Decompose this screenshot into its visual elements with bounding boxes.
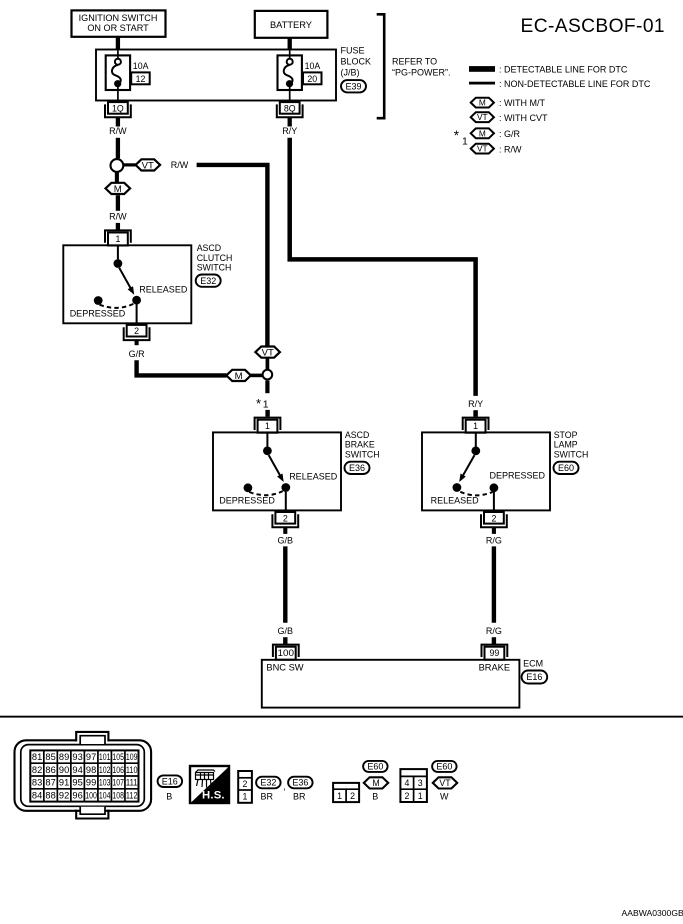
svg-text:R/Y: R/Y — [282, 126, 297, 136]
svg-text:VT: VT — [477, 112, 488, 122]
stop lamp switch common contact — [475, 433, 477, 447]
ignition switch box — [72, 10, 166, 36]
stop lamp switch movable contact arrow — [459, 455, 474, 482]
svg-text:E60: E60 — [558, 463, 574, 473]
svg-text:BRAKE: BRAKE — [345, 440, 375, 450]
wire junction to M hexagon — [115, 172, 119, 182]
svg-text:97: 97 — [86, 752, 96, 762]
wire G/R to M hexagon — [137, 360, 227, 375]
ASCD clutch switch box — [63, 245, 191, 323]
svg-text:106: 106 — [112, 765, 124, 775]
junction circle (brake switch feed) — [263, 370, 273, 380]
clutch switch output line — [136, 304, 138, 325]
connector E36 oval — [345, 462, 370, 474]
connector 2/1 (clutch+brake switch) — [238, 771, 252, 803]
svg-text:94: 94 — [72, 765, 82, 775]
svg-text:4: 4 — [405, 778, 410, 788]
svg-text:1Q: 1Q — [112, 103, 124, 113]
svg-text:93: 93 — [72, 752, 82, 762]
svg-text:M: M — [479, 98, 486, 108]
clutch switch common contact — [117, 246, 119, 260]
svg-text:M: M — [479, 128, 486, 138]
stop lamp switch box — [422, 432, 550, 510]
svg-text:E16: E16 — [526, 672, 542, 682]
svg-text:1: 1 — [263, 399, 269, 411]
legend hexagon VT — [471, 112, 494, 122]
svg-text:86: 86 — [45, 765, 55, 775]
svg-text:E32: E32 — [200, 276, 216, 286]
clutch switch depressed contact — [94, 296, 103, 305]
svg-text:R/Y: R/Y — [468, 399, 483, 409]
svg-text:83: 83 — [32, 778, 42, 788]
svg-text:DEPRESSED: DEPRESSED — [219, 496, 275, 506]
svg-text:G/B: G/B — [278, 535, 294, 545]
svg-text:E16: E16 — [162, 776, 178, 786]
svg-text:82: 82 — [32, 765, 42, 775]
svg-text:100: 100 — [278, 648, 295, 658]
svg-text:99: 99 — [490, 648, 500, 658]
connector E60 oval (M/T) — [363, 761, 388, 772]
svg-text:SWITCH: SWITCH — [197, 263, 232, 273]
svg-text:DEPRESSED: DEPRESSED — [70, 309, 126, 319]
svg-text:RELEASED: RELEASED — [289, 471, 338, 481]
wire junction to VT hexagon — [124, 163, 137, 166]
svg-text:: G/R: : G/R — [499, 129, 521, 139]
svg-text:: DETECTABLE LINE FOR DTC: : DETECTABLE LINE FOR DTC — [499, 64, 628, 74]
svg-text:FUSE: FUSE — [341, 46, 365, 56]
svg-text:91: 91 — [59, 778, 69, 788]
wire *1 upper segment — [265, 381, 269, 394]
svg-text:SWITCH: SWITCH — [345, 449, 380, 459]
stop lamp switch output line — [493, 492, 495, 513]
svg-text:: WITH CVT: : WITH CVT — [499, 113, 548, 123]
stop lamp switch pin 1 — [463, 418, 489, 433]
svg-text:BLOCK: BLOCK — [341, 57, 372, 67]
connector 1|2 (stop lamp switch M/T) — [333, 783, 359, 802]
svg-text:1: 1 — [473, 421, 478, 431]
svg-text:2: 2 — [491, 513, 496, 523]
svg-text:E39: E39 — [345, 82, 361, 92]
connector E16 oval (harness) — [158, 775, 183, 787]
wire M hexagon to junction — [251, 374, 263, 378]
ECM harness connector inner shell — [21, 736, 145, 815]
svg-text:EC-ASCBOF-01: EC-ASCBOF-01 — [521, 16, 665, 37]
svg-text:H.S.: H.S. — [202, 790, 225, 802]
connector E16 oval (ECM) — [522, 671, 548, 684]
svg-text:95: 95 — [72, 778, 82, 788]
svg-text:89: 89 — [59, 752, 69, 762]
svg-text:RELEASED: RELEASED — [431, 496, 480, 506]
separator line — [0, 716, 683, 718]
wire ignition to fuse block — [116, 37, 120, 51]
svg-text:ECM: ECM — [523, 658, 543, 668]
svg-text:ASCD: ASCD — [197, 243, 221, 253]
hexagon VT (R/W into junction) — [255, 347, 280, 359]
svg-text:109: 109 — [126, 752, 138, 762]
svg-text:,: , — [283, 782, 286, 792]
junction circle (M/T-CVT split) — [111, 159, 124, 172]
refer to PG-POWER note — [392, 56, 451, 77]
svg-text:E36: E36 — [292, 778, 308, 788]
clutch switch movable contact arrow — [119, 268, 134, 295]
svg-text:DEPRESSED: DEPRESSED — [490, 471, 546, 481]
svg-text:STOP: STOP — [554, 430, 578, 440]
svg-text:12: 12 — [136, 74, 146, 84]
svg-text:VT: VT — [142, 160, 154, 171]
svg-text:1: 1 — [115, 234, 120, 244]
wire G/B to ECM pin 100 — [283, 637, 287, 644]
fuse 10A #12 — [106, 51, 150, 103]
svg-text:108: 108 — [112, 791, 124, 801]
legend star 1 marker — [454, 128, 468, 148]
svg-text:AABWA0300GB: AABWA0300GB — [622, 908, 683, 918]
wire R/W to junction — [116, 138, 120, 159]
svg-text:RELEASED: RELEASED — [139, 284, 188, 294]
stop lamp switch label — [554, 430, 589, 459]
ECM pin 99 — [482, 645, 508, 660]
connector E60 oval (CVT) — [432, 761, 457, 772]
svg-text:2: 2 — [405, 791, 410, 801]
svg-text:111: 111 — [126, 778, 138, 788]
wire VT hexagon to junction — [266, 358, 270, 370]
svg-text:BR: BR — [261, 791, 274, 801]
svg-text:SWITCH: SWITCH — [554, 449, 589, 459]
label *1 — [256, 396, 269, 411]
fuse block (J/B) box — [96, 50, 336, 101]
svg-text:1: 1 — [337, 791, 342, 801]
svg-text:102: 102 — [99, 765, 111, 775]
svg-text:R/G: R/G — [486, 535, 502, 545]
wire R/G to ECM pin 99 — [492, 637, 496, 644]
svg-text:1: 1 — [265, 421, 270, 431]
svg-text:VT: VT — [477, 144, 488, 154]
svg-text:VT: VT — [439, 778, 451, 788]
svg-text:: WITH M/T: : WITH M/T — [499, 98, 545, 108]
svg-text:104: 104 — [99, 791, 111, 801]
svg-text:8Q: 8Q — [284, 103, 296, 113]
svg-text:G/B: G/B — [278, 626, 294, 636]
connector pin 8Q — [277, 102, 303, 117]
brake switch common contact — [266, 433, 268, 447]
svg-text:R/G: R/G — [486, 626, 502, 636]
legend hexagon VT (R/W) — [471, 144, 494, 154]
svg-text:ON OR START: ON OR START — [87, 23, 149, 33]
brake switch depressed contact — [244, 483, 253, 492]
svg-text:99: 99 — [86, 778, 96, 788]
ECM harness connector outer shell — [15, 732, 152, 819]
svg-text:84: 84 — [32, 791, 42, 801]
svg-text:B: B — [166, 791, 172, 801]
wire G/B below pin 2 — [283, 527, 287, 534]
svg-text:“PG-POWER”.: “PG-POWER”. — [392, 67, 451, 77]
svg-text:M: M — [372, 778, 379, 788]
svg-text:88: 88 — [45, 791, 55, 801]
legend thick detectable line sample — [469, 66, 495, 72]
svg-text:3: 3 — [418, 778, 423, 788]
connector E39 oval — [341, 80, 366, 92]
svg-text:10A: 10A — [133, 61, 149, 71]
fuse block label — [341, 46, 372, 78]
brake switch pin 2 — [272, 512, 298, 527]
svg-text:M: M — [235, 371, 243, 382]
brake switch dashed depressed arc — [249, 491, 283, 495]
svg-text:2: 2 — [350, 791, 355, 801]
svg-text:2: 2 — [283, 513, 288, 523]
svg-text:81: 81 — [32, 752, 42, 762]
svg-text:IGNITION SWITCH: IGNITION SWITCH — [79, 13, 158, 23]
hexagon M (G/R into junction) — [226, 370, 251, 382]
wire R/G below pin 2 — [492, 527, 496, 534]
svg-text:R/W: R/W — [109, 211, 127, 221]
svg-text:92: 92 — [59, 791, 69, 801]
stop lamp switch pin 2 — [481, 512, 507, 527]
svg-text:10A: 10A — [305, 61, 321, 71]
svg-text:105: 105 — [112, 752, 124, 762]
svg-text:110: 110 — [126, 765, 138, 775]
svg-text:100: 100 — [85, 791, 97, 801]
ECM harness connector pin grid — [30, 750, 138, 801]
clutch switch released contact — [132, 296, 141, 305]
svg-text:1: 1 — [418, 791, 423, 801]
brake switch released contact — [281, 483, 290, 492]
svg-text:101: 101 — [99, 752, 111, 762]
brake switch output line — [285, 492, 287, 513]
svg-text:BRAKE: BRAKE — [479, 663, 511, 673]
svg-text:E60: E60 — [436, 762, 452, 772]
svg-text:*: * — [454, 128, 460, 143]
svg-text:*: * — [256, 396, 261, 411]
connector pin 1Q — [105, 102, 131, 117]
connector E32 oval (harness) — [256, 777, 281, 789]
clutch switch dashed depressed arc — [100, 304, 134, 308]
wire R/Y to stop lamp pin 1 — [473, 410, 478, 417]
svg-text:E36: E36 — [349, 463, 365, 473]
legend hexagon M — [471, 98, 494, 108]
wire R/G long run — [492, 546, 496, 622]
stop lamp switch released contact — [453, 483, 462, 492]
ASCD brake switch label — [345, 430, 380, 459]
ASCD brake switch box — [213, 432, 341, 510]
svg-text:LAMP: LAMP — [554, 440, 578, 450]
svg-text:90: 90 — [59, 765, 69, 775]
svg-text:CLUTCH: CLUTCH — [197, 253, 233, 263]
svg-text:R/W: R/W — [109, 126, 127, 136]
battery box — [255, 11, 328, 38]
hexagon M (harness view) — [364, 777, 388, 788]
svg-text:98: 98 — [86, 765, 96, 775]
svg-text:20: 20 — [307, 74, 317, 84]
wire R/W branch to VT hexagon — [197, 165, 268, 347]
svg-text:B: B — [372, 791, 378, 801]
svg-text:G/R: G/R — [129, 349, 146, 359]
H.S. harness-side logo — [190, 766, 229, 803]
wire R/W below 1Q — [116, 117, 120, 126]
hexagon VT (CVT branch) — [136, 159, 161, 171]
svg-text:87: 87 — [45, 778, 55, 788]
svg-text:103: 103 — [99, 778, 111, 788]
svg-text:85: 85 — [45, 752, 55, 762]
svg-text:E60: E60 — [367, 762, 383, 772]
svg-text:W: W — [440, 791, 449, 801]
svg-text:R/W: R/W — [171, 160, 189, 170]
stop lamp switch dashed depressed arc — [460, 492, 492, 496]
svg-text:96: 96 — [72, 791, 82, 801]
svg-text:2: 2 — [134, 326, 139, 336]
svg-text:1: 1 — [462, 136, 468, 148]
wire R/Y run to stop lamp switch — [290, 138, 476, 396]
svg-text:BR: BR — [293, 791, 306, 801]
wire R/Y below 8Q — [288, 117, 292, 126]
clutch switch pin 1 — [105, 230, 131, 245]
clutch switch pin 2 — [124, 325, 150, 340]
hexagon M (M/T branch) — [106, 183, 131, 195]
svg-text:REFER TO: REFER TO — [392, 56, 437, 66]
svg-text:E32: E32 — [260, 778, 276, 788]
wire G/B long run — [283, 546, 287, 622]
svg-text:: NON-DETECTABLE LINE FOR DTC: : NON-DETECTABLE LINE FOR DTC — [499, 79, 651, 89]
svg-text:BATTERY: BATTERY — [270, 20, 312, 30]
connector E36 oval (harness) — [288, 777, 313, 789]
svg-text:1: 1 — [243, 792, 248, 802]
ECM box — [262, 660, 520, 708]
svg-text:112: 112 — [126, 791, 138, 801]
legend hexagon M (G/R) — [471, 128, 494, 138]
svg-text:: R/W: : R/W — [499, 144, 522, 154]
connector E32 oval — [196, 275, 221, 287]
fuse 10A #20 — [278, 51, 322, 103]
ECM pin 100 — [273, 645, 299, 660]
connector 4-3-2-1 (stop lamp switch CVT) — [400, 769, 427, 802]
connector E60 oval — [554, 462, 579, 474]
refer-to bracket — [377, 14, 385, 118]
wire *1 lower segment — [265, 410, 269, 417]
svg-text:107: 107 — [112, 778, 124, 788]
hexagon VT (harness view) — [433, 777, 457, 788]
svg-text:BNC SW: BNC SW — [266, 663, 303, 673]
wire battery to fuse block — [288, 38, 292, 51]
ASCD clutch switch label — [197, 243, 233, 272]
brake switch pin 1 — [255, 418, 281, 433]
legend thin non-detectable line sample — [469, 82, 495, 85]
wire below M hexagon — [116, 195, 120, 211]
svg-text:(J/B): (J/B) — [341, 67, 360, 77]
svg-text:VT: VT — [262, 348, 274, 359]
svg-text:M: M — [114, 184, 122, 195]
svg-text:2: 2 — [243, 779, 248, 789]
svg-text:ASCD: ASCD — [345, 430, 369, 440]
wire G/R below pin 2 — [135, 340, 139, 345]
wire to clutch switch pin 1 — [116, 223, 120, 230]
stop lamp switch depressed contact — [490, 483, 499, 492]
brake switch movable contact arrow — [269, 455, 284, 482]
